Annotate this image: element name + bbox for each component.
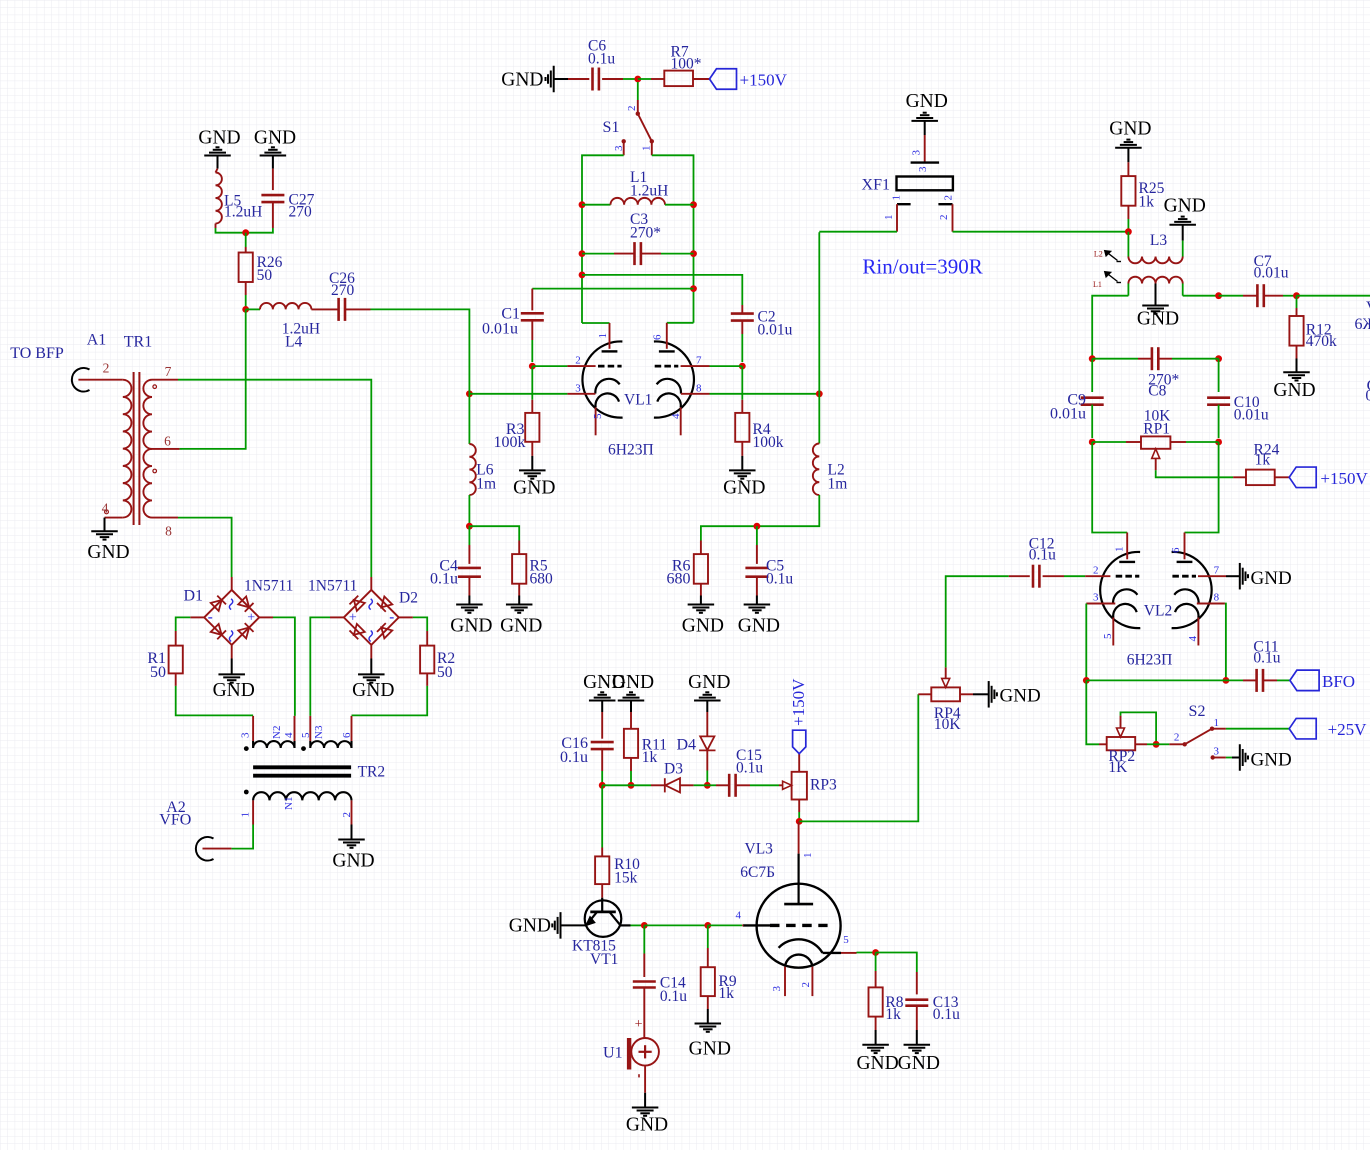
resistor R1 (147, 631, 182, 686)
potentiometer RP3 (779, 754, 837, 822)
svg-text:VFO: VFO (159, 812, 191, 829)
ground at TR2 pin2 (332, 825, 374, 872)
svg-text:2: 2 (1093, 564, 1099, 576)
power flag +150V (right) (1289, 467, 1368, 488)
svg-text:2: 2 (103, 361, 110, 376)
wire to C2 (582, 275, 742, 305)
svg-text:7: 7 (165, 364, 172, 379)
capacitor C14 (633, 925, 687, 1037)
svg-text:2: 2 (800, 982, 812, 988)
node grid VL1 left (529, 363, 536, 370)
svg-text:GND: GND (612, 672, 654, 693)
ground below U1 (626, 1066, 668, 1136)
svg-text:1: 1 (883, 215, 895, 221)
svg-text:VL2: VL2 (1144, 603, 1172, 620)
inductor L4 (246, 303, 339, 351)
global label BFO (1290, 670, 1355, 691)
svg-text:0.1u: 0.1u (1253, 650, 1280, 667)
node junction at R7/S1 (634, 76, 641, 83)
node C3 left (579, 250, 586, 257)
node RP2 wiper (1153, 741, 1160, 748)
svg-text:GND: GND (1109, 119, 1151, 140)
svg-text:50: 50 (150, 664, 166, 681)
svg-text:D3: D3 (664, 760, 683, 777)
capacitor C16 (560, 712, 614, 785)
svg-text:50: 50 (437, 664, 453, 681)
capacitor C1 (482, 289, 544, 362)
svg-text:4: 4 (670, 413, 682, 419)
svg-text:GND: GND (87, 542, 129, 563)
transformer TR1 core (134, 372, 140, 525)
power flag +150V (top) (710, 69, 788, 90)
svg-text:1K: 1K (1108, 759, 1128, 776)
svg-text:0.01u: 0.01u (1254, 265, 1289, 282)
transformer TR2 winding N3 (300, 716, 353, 751)
svg-text:VL3: VL3 (745, 841, 774, 858)
node cathode VL2 left (1083, 677, 1090, 684)
svg-text:680: 680 (530, 570, 554, 587)
diode D4 (676, 712, 715, 785)
ground below C13 (898, 1030, 940, 1074)
svg-text:6: 6 (1170, 547, 1182, 553)
svg-text:15k: 15k (614, 870, 638, 887)
svg-text:U1: U1 (603, 1044, 623, 1061)
svg-text:1m: 1m (828, 475, 848, 492)
svg-text:1: 1 (802, 853, 814, 859)
wire VL2 cathode to RP2 (1086, 680, 1099, 744)
transformer TR2 winding N1 (240, 790, 353, 825)
svg-text:1.2uH: 1.2uH (630, 182, 668, 199)
switch S1 (603, 100, 654, 155)
svg-text:GND: GND (1137, 308, 1179, 329)
svg-text:GND: GND (688, 672, 730, 693)
wire junction to R7 (638, 78, 651, 80)
pin 7 VL2 (1198, 564, 1226, 576)
svg-text:6: 6 (164, 433, 171, 448)
node D4 bottom (704, 782, 711, 789)
resistor R3 (494, 366, 540, 456)
svg-text:+: + (247, 611, 255, 626)
resistor R7 (651, 43, 710, 86)
wire L3 left down (1092, 296, 1128, 359)
ground below R12 (1273, 359, 1315, 402)
pin 4 VL3 (735, 910, 743, 926)
node C5 tap (754, 523, 761, 530)
node C1 top wire (690, 285, 697, 292)
svg-text:1: 1 (240, 812, 252, 818)
potentiometer RP4 (918, 667, 973, 733)
power symbol GND above R11 (612, 672, 654, 712)
svg-text:D4: D4 (676, 737, 696, 754)
capacitor C9 (1050, 359, 1104, 438)
svg-text:GND: GND (723, 478, 765, 499)
svg-text:1: 1 (597, 333, 609, 339)
transformer TR2 core (253, 763, 385, 780)
ground below C5 (738, 596, 780, 637)
wire XF1 pin2 to R25 node (953, 231, 1129, 233)
svg-text:0.1u: 0.1u (736, 760, 763, 777)
wire S2-1 to +25V (1226, 728, 1289, 730)
svg-text:N2: N2 (271, 726, 283, 739)
ground below D1 (213, 645, 255, 701)
node cathode row right (816, 390, 823, 397)
svg-text:3: 3 (910, 150, 922, 156)
ground below R6 (682, 596, 724, 637)
svg-text:2: 2 (938, 215, 950, 221)
svg-text:3: 3 (771, 986, 783, 992)
pin 5 VL2 (1102, 618, 1114, 646)
svg-text:1k: 1k (885, 1006, 901, 1023)
resistor R24 (1233, 442, 1289, 486)
svg-text:4: 4 (283, 732, 295, 738)
pin 4 VL2 (1187, 618, 1199, 646)
ground at RP4 (973, 681, 1041, 708)
pin 6 VL2 (1170, 533, 1185, 560)
svg-text:GND: GND (626, 1114, 668, 1135)
wire collector to node (631, 924, 645, 926)
wire S1-1 to right rail (652, 155, 694, 322)
svg-text:+150V: +150V (1320, 469, 1368, 488)
svg-text:0.1u: 0.1u (660, 988, 687, 1005)
power symbol GND above R25 (1109, 119, 1151, 163)
svg-text:270: 270 (289, 203, 313, 220)
transformer TR2 winding N2 (240, 716, 295, 751)
svg-text:470k: 470k (1306, 333, 1337, 350)
svg-text:0.01u: 0.01u (482, 321, 518, 338)
svg-text:A1: A1 (87, 332, 107, 349)
filter XF1 (862, 135, 955, 232)
svg-text:1: 1 (1213, 717, 1219, 729)
wire TR1 pin8 to D1 (178, 518, 232, 577)
svg-text:N1: N1 (283, 797, 295, 810)
wire RP3 to RP4 (799, 694, 918, 821)
svg-text:L4: L4 (285, 334, 302, 351)
wire C6 to junction (623, 78, 638, 80)
svg-text:L1: L1 (1093, 280, 1102, 289)
svg-text:D2: D2 (399, 589, 418, 606)
svg-text:50: 50 (257, 267, 273, 284)
resistor R25 (1121, 162, 1164, 231)
node C16 bottom (599, 782, 606, 789)
wire to C13 (876, 953, 917, 973)
svg-text:GND: GND (689, 1038, 731, 1059)
node C2 branch (579, 272, 586, 279)
capacitor C2 (731, 305, 793, 362)
transformer TR1 primary (78, 333, 152, 517)
wire TR2 pin1 to A2 (203, 825, 254, 849)
ground below R8 (856, 1030, 898, 1074)
svg-text:0.01u: 0.01u (1234, 406, 1269, 423)
resistor R9 (701, 925, 737, 1009)
ground below R4 (723, 456, 765, 499)
svg-text:6Н23П: 6Н23П (608, 442, 654, 459)
svg-text:+: + (635, 1017, 643, 1032)
transformer L3 winding bottom (1128, 277, 1182, 296)
wire left rail down to VL2 pin1 (1092, 442, 1127, 533)
node grid VL1 right (739, 363, 746, 370)
svg-text:VL1: VL1 (624, 392, 652, 409)
svg-text:GND: GND (213, 680, 255, 701)
resistor R10 (595, 785, 640, 897)
svg-text:VT1: VT1 (590, 951, 618, 968)
wire C1 coupling (532, 288, 693, 290)
resistor R12 (1289, 296, 1337, 359)
svg-text:RP1: RP1 (1143, 421, 1170, 438)
resistor R5 (469, 526, 553, 595)
potentiometer RP2 (1099, 716, 1147, 777)
svg-text:GND: GND (198, 127, 240, 148)
power symbol GND at C6 (501, 66, 568, 93)
pin 5 VL3 (841, 934, 857, 953)
ground at L3 centre tap (1137, 284, 1179, 330)
svg-text:0.1u: 0.1u (560, 749, 588, 766)
svg-text:1N5711: 1N5711 (244, 578, 293, 595)
clipped text right edge cap (1365, 378, 1370, 405)
svg-text:TR2: TR2 (358, 763, 386, 780)
svg-text:1k: 1k (1139, 194, 1155, 211)
svg-text:S1: S1 (603, 119, 620, 136)
svg-text:1k: 1k (642, 749, 658, 766)
wire RP2 wiper tie (1121, 712, 1157, 744)
node L5/C27/R26 (242, 229, 249, 236)
pin 8 VL2 (1197, 592, 1225, 604)
node R26/L4 (242, 306, 249, 313)
svg-text:GND: GND (1273, 380, 1315, 401)
svg-text:-: - (208, 610, 213, 626)
ground below R5 (500, 596, 542, 637)
svg-text:0.01u: 0.01u (758, 321, 793, 338)
svg-text:+150V: +150V (740, 70, 788, 89)
wire D2 left to TR2 pin5 (310, 617, 344, 716)
svg-text:GND: GND (1000, 685, 1041, 706)
ground below C4 (450, 596, 492, 637)
svg-text:7: 7 (696, 354, 702, 366)
node R12 top (1293, 292, 1300, 299)
pin 3 VL2 (1086, 592, 1115, 604)
transistor VT1 (KT815) (572, 898, 631, 968)
wire L5/C27 to junction (216, 228, 273, 233)
wire RP2 to S2 (1147, 743, 1169, 745)
wire TR1 pin6 (180, 448, 182, 450)
connector A1 (10, 332, 106, 392)
capacitor C5 (745, 526, 793, 595)
capacitor C6 (568, 37, 623, 90)
svg-text:XF1: XF1 (862, 176, 890, 193)
ground below D2 (352, 645, 394, 701)
node cathode row left (466, 390, 473, 397)
svg-text:Rin/out=390R: Rin/out=390R (862, 255, 982, 279)
svg-text:S2: S2 (1189, 703, 1206, 720)
pin 1 VL1 (582, 323, 610, 349)
svg-text:4: 4 (735, 910, 741, 922)
svg-text:3: 3 (240, 732, 252, 738)
svg-text:GND: GND (501, 69, 543, 90)
svg-text:1: 1 (891, 195, 903, 201)
pin 5 VL1 (592, 407, 604, 435)
node L1 left (579, 201, 586, 208)
svg-text:GND: GND (856, 1053, 898, 1074)
node C8 right (1215, 355, 1222, 362)
capacitor C15 (707, 747, 779, 797)
inductor L1 (582, 169, 694, 205)
svg-text:0.1u: 0.1u (766, 570, 793, 587)
svg-text:GND: GND (898, 1053, 940, 1074)
svg-text:GND: GND (1164, 196, 1206, 217)
core arrow L2 of L3 (1094, 250, 1121, 262)
svg-text:V: V (1366, 299, 1370, 316)
svg-text:GND: GND (509, 916, 551, 937)
pin 2 VL2 (1085, 564, 1110, 576)
inductor L6 (469, 394, 496, 526)
capacitor C3 (582, 211, 694, 265)
svg-text:6С7Б: 6С7Б (740, 864, 775, 881)
wire D1 right to TR2 pin4 (259, 617, 295, 716)
svg-text:6Ж: 6Ж (1355, 316, 1370, 333)
svg-text:680: 680 (667, 570, 691, 587)
wire C7 to right edge (1297, 295, 1370, 297)
pin 2 VL1 (567, 354, 595, 366)
inductor L5 (216, 169, 263, 228)
capacitor C11 (1226, 639, 1290, 692)
node RP1 left (1089, 439, 1096, 446)
wire D3 to D4 node (694, 784, 708, 786)
svg-text:3: 3 (1214, 745, 1220, 757)
wire rail to XF1 pin1 (819, 231, 897, 233)
triode VL1 (6N23P double) (582, 341, 693, 458)
wire D2 right to R2 (399, 617, 427, 631)
svg-text:7: 7 (1214, 564, 1220, 576)
triode VL2 (6N23P double) (1100, 552, 1211, 669)
svg-text:0.1u: 0.1u (430, 570, 458, 587)
svg-text:GND: GND (500, 615, 542, 636)
wire AGC bus (602, 784, 651, 786)
svg-text:3: 3 (1093, 592, 1099, 604)
svg-text:0.1u: 0.1u (1029, 547, 1056, 564)
wire cathode rail up to XF1 (818, 232, 820, 394)
wire cathode right (710, 393, 820, 395)
resistor R26 (239, 233, 283, 310)
node R9 tap (704, 922, 711, 929)
svg-text:+25V: +25V (1328, 720, 1368, 739)
potentiometer RP1 (1092, 408, 1218, 471)
diode D3 (651, 760, 694, 792)
svg-text:0.01u: 0.01u (1050, 406, 1086, 423)
resistor R8 (869, 953, 904, 1031)
svg-text:270*: 270* (630, 224, 661, 241)
svg-text:6Н23П: 6Н23П (1127, 652, 1173, 669)
wire cathode left (469, 393, 567, 395)
pin 1 VL2 (1114, 533, 1128, 560)
wire VL3 pin5 to R8 (857, 952, 876, 954)
wire RP4 wiper to C12 (946, 576, 1009, 667)
transformer L3 winding top (1128, 232, 1182, 264)
pin 3 VL3 (771, 967, 785, 996)
capacitor C12 (1009, 535, 1085, 587)
node cathode VL2 right (1223, 677, 1230, 684)
inductor L2 (813, 394, 847, 495)
svg-text:-: - (389, 610, 394, 626)
svg-text:8: 8 (165, 523, 172, 538)
connector A2 (159, 799, 213, 861)
svg-text:5: 5 (592, 413, 604, 419)
svg-text:GND: GND (450, 615, 492, 636)
pin 3 VL1 (567, 382, 595, 394)
capacitor C8 (1092, 347, 1218, 399)
wire L3 right to C7 (1183, 295, 1219, 297)
svg-text:GND: GND (738, 615, 780, 636)
node L1 right (690, 201, 697, 208)
pin 1 VL3 (799, 821, 814, 858)
ground at VT1 emitter (509, 912, 586, 939)
diode bridge D1 (1N5711) (183, 577, 293, 645)
ground below R9 (689, 1009, 731, 1059)
power symbol GND above D4 (688, 672, 730, 712)
wire TR1 pin7 to D2 (178, 380, 371, 577)
wire R2 to TR2 pin6 (352, 686, 428, 716)
pin 2 VL3 (800, 967, 812, 996)
svg-text:3: 3 (613, 145, 625, 151)
wire L2 to R6 (701, 495, 819, 541)
svg-text:GND: GND (682, 615, 724, 636)
wire grid right (710, 365, 743, 367)
wire right rail down to VL2 pin6 (1185, 442, 1219, 533)
wire cathode bus VL2 (1086, 679, 1226, 681)
svg-text:6: 6 (651, 334, 663, 340)
svg-text:4: 4 (102, 500, 109, 515)
svg-text:1: 1 (641, 146, 653, 152)
svg-text:0.1u: 0.1u (588, 51, 615, 68)
wire junction down to TR1 pin6 (182, 309, 246, 449)
node C8 left (1089, 355, 1096, 362)
svg-text:2: 2 (626, 106, 638, 112)
core arrow L1 of L3 (1093, 272, 1121, 290)
svg-text:1.2uH: 1.2uH (224, 203, 262, 220)
resistor R2 (420, 631, 455, 686)
svg-text:GND: GND (332, 851, 374, 872)
wire to VL3 pin4 (708, 924, 742, 926)
pin 8 VL1 (681, 382, 710, 394)
svg-text:4: 4 (1187, 636, 1199, 642)
pin 7 VL1 (681, 354, 710, 366)
microphone cell U1 (603, 1017, 659, 1077)
svg-text:2: 2 (575, 354, 581, 366)
capacitor C26 (329, 270, 371, 321)
pin 6 VL1 (651, 323, 693, 349)
resistor R6 (667, 541, 709, 596)
svg-text:0: 0 (1365, 388, 1370, 405)
clipped text right edge tube (1355, 299, 1370, 333)
svg-text:1: 1 (1114, 547, 1126, 553)
svg-text:N3: N3 (313, 725, 325, 739)
ground at S2-3 (1226, 744, 1292, 771)
svg-text:L3: L3 (1150, 232, 1167, 249)
wire VL2 pin8 down (1225, 604, 1226, 681)
transformer TR1 secondary (143, 364, 179, 539)
resistor R11 (624, 712, 667, 785)
wire C26 to cathode rail (371, 309, 470, 393)
node R25/L3 (1125, 228, 1132, 235)
ground at TR1 pin4 (87, 518, 129, 563)
svg-text:1k: 1k (1255, 452, 1271, 469)
svg-text:6: 6 (341, 732, 353, 738)
node RP1 right (1215, 439, 1222, 446)
svg-text:C8: C8 (1148, 383, 1166, 400)
ground at VL2 pin7 (1226, 563, 1292, 590)
capacitor C13 (905, 972, 960, 1030)
node C14 tap (641, 922, 648, 929)
svg-text:GND: GND (1251, 568, 1292, 589)
capacitor C4 (430, 526, 481, 595)
